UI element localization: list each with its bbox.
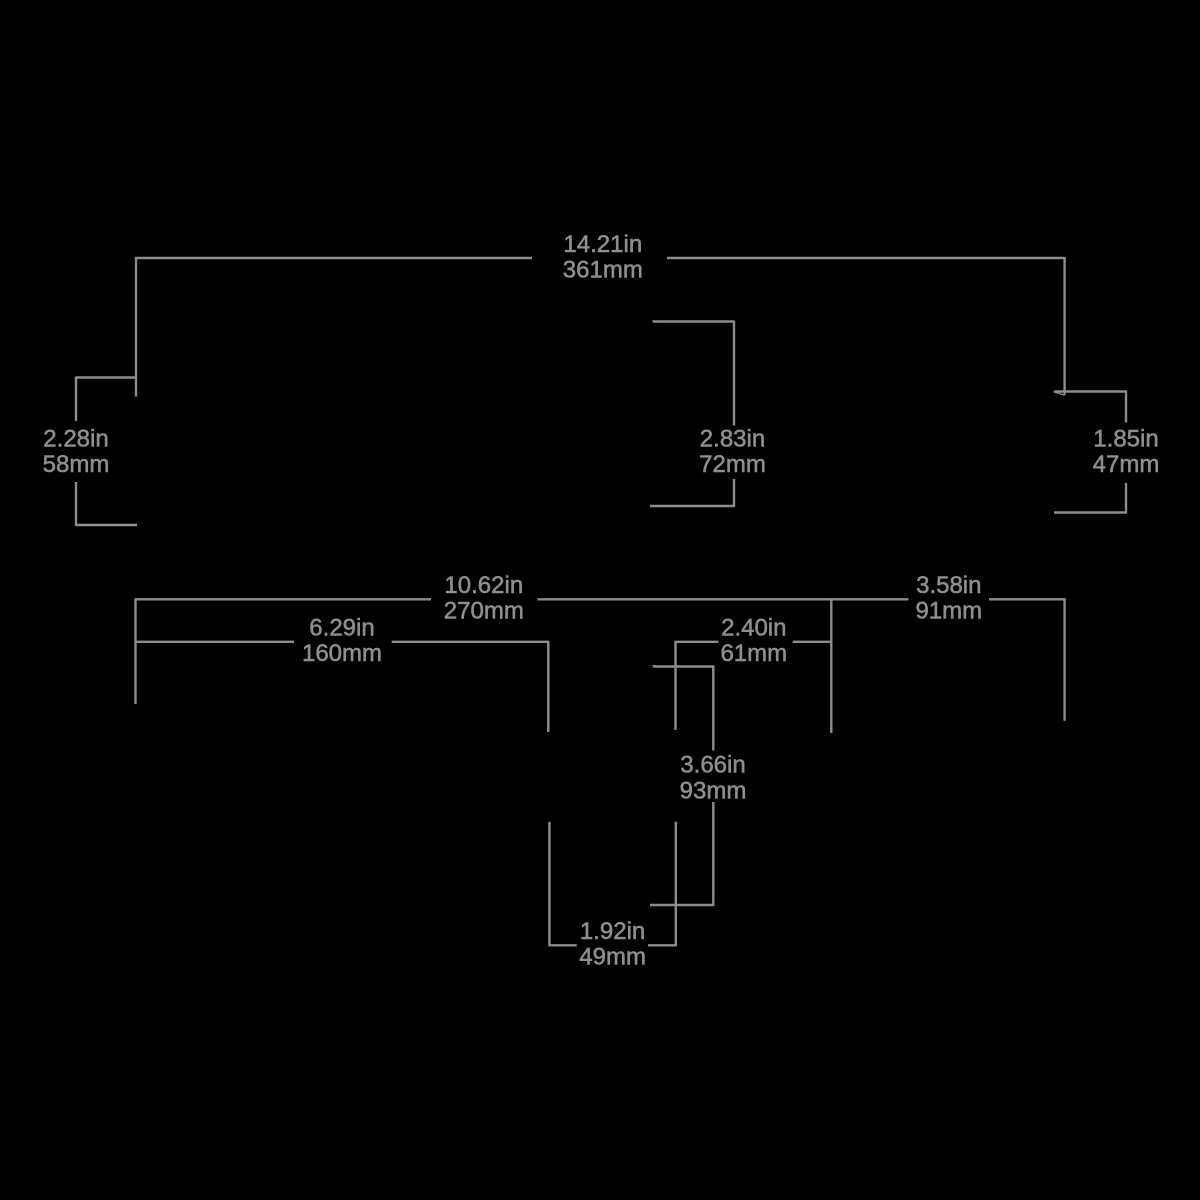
svg-text:270mm: 270mm: [444, 598, 524, 625]
svg-text:3.66in: 3.66in: [680, 752, 745, 779]
svg-text:72mm: 72mm: [699, 451, 766, 478]
svg-text:61mm: 61mm: [720, 640, 787, 667]
svg-text:160mm: 160mm: [302, 640, 382, 667]
svg-text:58mm: 58mm: [43, 451, 110, 478]
svg-text:2.83in: 2.83in: [700, 426, 765, 453]
svg-text:2.40in: 2.40in: [721, 615, 786, 642]
svg-text:1.85in: 1.85in: [1093, 426, 1158, 453]
svg-text:361mm: 361mm: [563, 257, 643, 284]
svg-text:6.29in: 6.29in: [309, 615, 374, 642]
svg-text:91mm: 91mm: [915, 598, 982, 625]
svg-text:3.58in: 3.58in: [916, 572, 981, 599]
svg-text:2.28in: 2.28in: [43, 426, 108, 453]
svg-text:14.21in: 14.21in: [563, 231, 642, 258]
svg-text:47mm: 47mm: [1093, 451, 1160, 478]
svg-text:49mm: 49mm: [579, 943, 646, 970]
svg-text:10.62in: 10.62in: [444, 572, 523, 599]
svg-text:93mm: 93mm: [680, 778, 747, 805]
svg-text:1.92in: 1.92in: [580, 918, 645, 945]
